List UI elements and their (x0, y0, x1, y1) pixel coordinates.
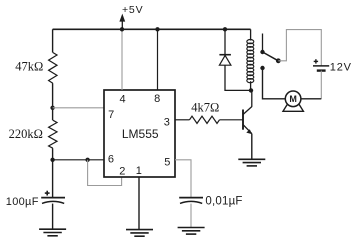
wire: cap C2 to ground (gray) (190, 204, 192, 228)
svg-text:220kΩ: 220kΩ (9, 127, 43, 141)
ground under Q1 emitter (238, 159, 265, 166)
wire: rail corner down to coil top (250, 29, 252, 40)
svg-text:5: 5 (164, 157, 170, 169)
svg-text:6: 6 (108, 154, 114, 166)
node: rail junction diode (223, 27, 227, 31)
node: junction pin6/pin2 branch (85, 158, 89, 162)
svg-text:M: M (289, 94, 297, 104)
svg-text:+5V: +5V (122, 4, 143, 16)
wire: emitter to ground (251, 134, 253, 160)
resistor 47kΩ (49, 53, 57, 84)
wire: base wire to Q1 (220, 119, 243, 121)
op IC LM555 U1 (104, 90, 175, 177)
node: switch pole (276, 58, 281, 63)
node: coil bottom junction (249, 88, 253, 92)
pin 5 wire to C2 (gray) (175, 160, 191, 198)
svg-text:7: 7 (108, 109, 114, 121)
pin 1 wire to ground (138, 177, 140, 230)
diode D1 (flyback) (219, 55, 231, 65)
wire: loop to pin 2 (gray) (88, 160, 122, 186)
ground under pin 1 (126, 230, 153, 237)
svg-text:4k7Ω: 4k7Ω (191, 101, 219, 115)
svg-text:2: 2 (119, 165, 125, 177)
wire: lower contact to motor (263, 68, 286, 99)
emitter arrowhead of Q1 (246, 129, 252, 134)
node: switch top contact (260, 50, 264, 54)
motor M1 (285, 91, 301, 107)
wire: diode bottom to coil bottom (225, 65, 251, 90)
node: rail junction pin 8 (155, 27, 159, 31)
svg-text:LM555: LM555 (122, 127, 159, 141)
polarity + of battery (314, 59, 318, 63)
ground under C2 (178, 228, 205, 235)
wire: +5V top rail (53, 28, 251, 30)
capacitor C2 0,01µF (179, 198, 203, 204)
svg-text:0,01µF: 0,01µF (205, 195, 242, 207)
motor mount stand (283, 104, 303, 111)
pin 8 wire (157, 29, 159, 90)
svg-text:12V: 12V (330, 61, 352, 73)
wire: diode branch top (224, 29, 226, 54)
battery B1 plates (313, 66, 329, 71)
relay coil L1 (247, 40, 254, 83)
node: junction to pin 7 (50, 106, 54, 110)
polarity + of C1 (45, 191, 50, 196)
pin 4 wire (gray) (121, 29, 123, 90)
node: junction to pin 6 (50, 158, 54, 162)
wire: to pin 6 (53, 159, 104, 161)
wire: coil bottom to junction (250, 81, 252, 90)
wire: left vertical between 47k and 220k (52, 83, 54, 120)
capacitor C1 100µF (41, 198, 65, 204)
svg-text:4: 4 (120, 94, 126, 106)
svg-text:1: 1 (136, 165, 142, 177)
wire: battery minus down (gray) (320, 71, 322, 99)
wire: left vertical branch (top) (52, 29, 54, 52)
wire: cap C1 to ground (52, 204, 54, 230)
switch arm (263, 52, 279, 61)
svg-text:8: 8 (154, 93, 160, 105)
node: rail junction pin 4 (120, 27, 124, 31)
wire: collector up to relay coil (251, 90, 253, 107)
ground under C1 (39, 229, 66, 236)
svg-text:100µF: 100µF (6, 196, 39, 208)
node: switch lower contact (260, 66, 264, 70)
svg-text:47kΩ: 47kΩ (15, 60, 43, 74)
relay switch fixed contact stub (262, 34, 264, 53)
svg-text:3: 3 (164, 116, 170, 128)
wire: to pin 7 (gray) (53, 107, 104, 109)
wire: left vertical between 220k and cap (52, 148, 54, 197)
pin 3 wire (175, 119, 190, 121)
wire: pole loop to battery (gray) (278, 30, 321, 66)
transistor Q1 (243, 107, 252, 134)
resistor 220kΩ (49, 120, 57, 148)
+5V supply arrow (119, 14, 125, 30)
wire: motor to battery (301, 98, 321, 100)
resistor 4k7Ω (190, 116, 220, 123)
